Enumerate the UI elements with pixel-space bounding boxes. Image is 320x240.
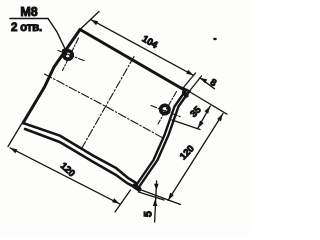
dimension line 120 right [168,114,223,201]
bottom edge upper line [23,123,137,184]
dimension line 120 bottom [10,148,120,204]
svg-text:2 отв.: 2 отв. [11,22,42,34]
dimension line 35 [198,106,211,128]
extension line at corner A for dim 104 [80,12,99,30]
arrow dim5 up [153,199,158,206]
extension line from corner D lower right [136,188,181,205]
arrow dim104/8 right [186,70,193,76]
centerline horizontal (plate axis along width) [45,74,164,138]
extension line at corner C for dim 120 bottom [8,124,22,147]
arrow dim8 right [200,78,207,84]
flange edge inner line [136,92,185,186]
centerline vertical (plate axis along depth) [81,57,135,151]
leader line to hole 1 [48,19,67,53]
arrow dim35 top [204,106,210,114]
extension line at corner D for dim 120 bottom [115,190,131,212]
hole 1 centerline along width [58,51,85,62]
flange edge outer line [140,92,189,186]
arrow dim104 left [91,20,98,26]
extension line at bend end for dim 8 [190,76,202,91]
top edge [80,30,184,90]
arrow dim35 bottom [198,121,204,129]
bend top short edge [183,88,190,92]
corner blob lower right [135,186,140,189]
bottom edge lower line [25,129,140,190]
label underline [10,18,48,20]
extension line from lower edge for dim 5 [139,192,165,200]
arrow dim5 down [154,184,159,191]
hole 2 circle [161,105,169,113]
svg-text:М8: М8 [20,5,37,19]
arrow dim120bottom right [112,198,119,204]
hole 2 centerline along width [151,106,181,118]
extension line below flange for dim 35 [172,120,200,130]
hole 2 centerline along depth [158,92,177,125]
extension line from bend for dims 35/120 [190,92,227,114]
arrow dim120bottom left [10,148,17,154]
svg-text:5: 5 [143,211,155,217]
extension line at bend start for dims 104/8 [183,73,196,88]
arrow dim120right top [217,114,223,122]
hole 1 centerline along depth [63,38,79,71]
hole 1 circle [64,51,72,59]
leader arrow blob at hole 1 [64,51,67,55]
bend corner blob [184,93,187,96]
arrow dim120right bottom [168,193,174,201]
stray speck top right [213,38,217,40]
left edge [23,30,80,124]
dimension line 104 [91,20,194,76]
dimension line 5 vertical [155,181,157,222]
dim 8 tail line [200,78,215,89]
